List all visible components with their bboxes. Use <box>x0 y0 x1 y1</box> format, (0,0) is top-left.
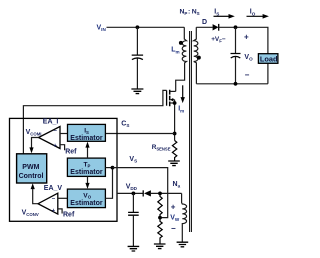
ground VDD cap <box>128 246 140 251</box>
node Vs <box>111 166 115 170</box>
wire Vs <box>113 168 168 218</box>
svg-text:Na: Na <box>173 181 181 189</box>
mosfet body arrow <box>172 99 175 101</box>
secondary phase dot <box>197 56 201 60</box>
svg-text:Estimator: Estimator <box>70 169 103 176</box>
wire Tp right to node <box>105 167 112 169</box>
wire VDD cap to ground <box>132 216 134 247</box>
wire CS <box>105 133 174 135</box>
diode VDD <box>142 190 144 196</box>
capacitor output <box>231 54 241 59</box>
mosfet source tap <box>170 102 175 104</box>
svg-text:Lm: Lm <box>171 47 179 55</box>
node CS junction <box>173 132 177 136</box>
resistor divider top R1 <box>158 193 162 217</box>
wire input cap branch <box>136 27 138 54</box>
transformer primary winding Lm <box>176 27 187 91</box>
wire EA_V ref stub <box>58 209 62 214</box>
wire EA_V minus to Vo estimator <box>58 197 68 199</box>
svg-text:IS: IS <box>214 9 219 17</box>
svg-text:Ref: Ref <box>65 148 77 155</box>
resistor RSENSE <box>172 141 176 161</box>
svg-text:−: − <box>52 196 56 202</box>
mosfet channel bar <box>169 90 171 107</box>
svg-text:+: + <box>171 202 176 211</box>
Tp estimator box <box>67 158 105 176</box>
svg-text:EA_I: EA_I <box>43 119 59 126</box>
wire EA_I ref stub <box>60 145 65 151</box>
transformer secondary winding <box>194 27 198 84</box>
mosfet drain tap <box>170 90 176 92</box>
svg-text:VO: VO <box>244 54 253 62</box>
wire diode to output <box>219 27 268 84</box>
svg-text:Estimator: Estimator <box>70 200 103 207</box>
svg-text:VDD: VDD <box>126 183 138 191</box>
svg-text:Ref: Ref <box>63 212 75 219</box>
Vo estimator box <box>67 189 105 208</box>
wire VDD <box>117 192 144 194</box>
wire secondary to diode <box>196 26 212 28</box>
svg-text:VS: VS <box>129 156 137 164</box>
ground aux <box>177 242 189 247</box>
wire Vin top rail <box>107 26 185 28</box>
ground input cap <box>131 89 143 94</box>
svg-text:VCOMI: VCOMI <box>26 129 42 137</box>
wire output bottom rail <box>196 83 268 85</box>
node divider top <box>158 192 162 196</box>
wire diode to aux <box>151 192 182 194</box>
wire Vo right to node <box>105 168 112 199</box>
wire VDD cap branch <box>132 193 134 212</box>
node output top <box>234 25 238 29</box>
wire output cap branch <box>235 27 237 53</box>
aux winding Na <box>182 193 187 242</box>
arrow Tp to Is <box>87 147 89 159</box>
transformer core <box>190 31 192 232</box>
capacitor input C <box>132 55 143 60</box>
node divider tap <box>158 216 162 220</box>
svg-text:Load: Load <box>260 55 278 64</box>
svg-text:−: − <box>171 224 176 233</box>
primary phase dot <box>179 41 183 45</box>
ground divider <box>154 244 166 249</box>
PWM control box <box>17 154 47 183</box>
arrow Tp to Vo <box>87 176 89 184</box>
svg-text:Im: Im <box>178 106 184 114</box>
op-amp EA_I <box>39 127 61 149</box>
node Vin junction <box>136 25 140 29</box>
Im current arrow <box>182 85 184 98</box>
svg-text:+VF−: +VF− <box>211 36 226 44</box>
svg-text:NP:NS: NP:NS <box>180 8 200 16</box>
wire cap to ground <box>136 58 138 89</box>
svg-text:Control: Control <box>19 173 44 180</box>
wire EA_V output to PWM <box>33 188 38 204</box>
svg-text:PWM: PWM <box>22 164 39 171</box>
svg-text:−: − <box>245 70 250 79</box>
svg-text:D: D <box>202 19 207 26</box>
node VDD cap <box>132 192 136 196</box>
load box <box>258 54 278 64</box>
wire EA_I output to PWM <box>32 138 39 149</box>
diode D <box>213 24 219 30</box>
wire EA_I minus to Is estimator <box>60 133 68 135</box>
control IC big box <box>10 118 118 221</box>
capacitor VDD <box>128 212 139 215</box>
svg-text:VCONV: VCONV <box>22 209 39 217</box>
wire output cap bottom <box>235 57 237 84</box>
svg-text:VIN: VIN <box>97 25 107 33</box>
svg-text:EA_V: EA_V <box>44 185 63 192</box>
ground RSENSE <box>168 161 180 166</box>
svg-text:+: + <box>244 33 249 42</box>
svg-text:IO: IO <box>250 9 256 17</box>
wire source down <box>174 100 176 141</box>
op-amp EA_V <box>38 193 58 214</box>
Is estimator box <box>68 124 106 141</box>
mosfet Q1 gate wire <box>23 90 166 153</box>
svg-text:−: − <box>53 129 57 135</box>
node output bottom <box>234 82 238 86</box>
node source <box>173 101 177 105</box>
svg-text:RSENSE: RSENSE <box>152 144 171 151</box>
svg-text:+: + <box>53 144 57 150</box>
mosfet gate bar <box>166 90 168 105</box>
svg-text:Estimator: Estimator <box>70 135 103 142</box>
svg-text:VW: VW <box>170 214 180 222</box>
svg-text:CS: CS <box>121 121 129 129</box>
resistor divider bottom R2 <box>158 218 162 244</box>
svg-text:+: + <box>52 209 56 215</box>
